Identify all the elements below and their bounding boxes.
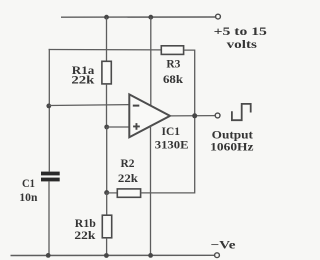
svg-text:R2: R2: [121, 157, 135, 170]
wire: bottom negative rail: [11, 254, 215, 256]
wire: R1a lower lead down to + input node: [106, 84, 108, 127]
wire: divider vertical from + node down to R2 node: [106, 127, 108, 193]
capacitor C1 plate upper: [41, 172, 60, 176]
wire: feedback net vertical (C1 / inverting input riser): [48, 49, 50, 172]
terminal: -Ve open circle: [215, 253, 220, 258]
capacitor C1 plate lower: [41, 178, 60, 182]
wire: inverting input: [49, 104, 130, 107]
op-amp inverting input minus symbol: [133, 105, 140, 107]
wire: op-amp output: [170, 115, 215, 117]
wire: R1a upper lead from top rail: [106, 17, 108, 61]
svg-text:IC1: IC1: [162, 125, 181, 138]
node: junction rail / R1b: [104, 253, 109, 258]
node: junction output / feedback: [192, 113, 197, 118]
op-amp IC1 triangle: [129, 94, 170, 137]
wire: feedback net horizontal run to R3: [49, 49, 162, 51]
wire: non-inverting input: [107, 126, 130, 128]
svg-text:C1: C1: [22, 177, 35, 190]
wire: R2 left lead: [107, 192, 118, 194]
wire: R2 right lead up to output node: [141, 116, 195, 193]
wire: C1 lower lead to negative rail: [48, 181, 50, 255]
node: junction rail / C1: [46, 253, 51, 258]
terminal: +V supply open circle: [216, 14, 221, 19]
resistor R3 body: [161, 46, 183, 55]
wire: top positive rail: [61, 16, 215, 18]
svg-text:+5 to 15: +5 to 15: [214, 25, 268, 38]
resistor R1b body: [102, 215, 111, 238]
wire: R3 right lead to output drop: [184, 50, 195, 116]
svg-text:1060Hz: 1060Hz: [210, 140, 253, 153]
svg-text:3130E: 3130E: [155, 138, 189, 151]
icon: output square wave symbol: [232, 104, 251, 120]
terminal: output open circle: [215, 113, 220, 118]
svg-text:R3: R3: [166, 57, 180, 70]
wire: R1b upper lead: [106, 193, 108, 216]
node: junction rail / V-: [148, 253, 153, 258]
wire: V+ supply drop to op-amp top edge: [150, 17, 152, 106]
svg-text:22k: 22k: [118, 172, 139, 185]
svg-text:68k: 68k: [163, 73, 184, 86]
svg-text:22k: 22k: [71, 74, 95, 87]
svg-text:10n: 10n: [19, 191, 38, 204]
svg-text:22k: 22k: [74, 229, 96, 242]
wire: op-amp V- from bottom edge down to negative rail: [150, 126, 152, 255]
node: junction divider / R2: [104, 190, 109, 195]
node: junction inverting input / C1: [46, 104, 51, 109]
svg-text:−Ve: −Ve: [211, 238, 236, 251]
svg-text:volts: volts: [227, 38, 258, 51]
resistor R1a body: [102, 61, 111, 84]
resistor R2 body: [117, 189, 140, 197]
node: junction top rail / R1a branch: [104, 15, 109, 20]
op-amp non-inverting input plus symbol: [133, 123, 140, 130]
node: junction non-inverting input / divider: [104, 125, 109, 130]
wire: R1b lower lead to negative rail: [106, 238, 108, 256]
node: junction top rail / op-amp V+ branch: [148, 15, 153, 20]
